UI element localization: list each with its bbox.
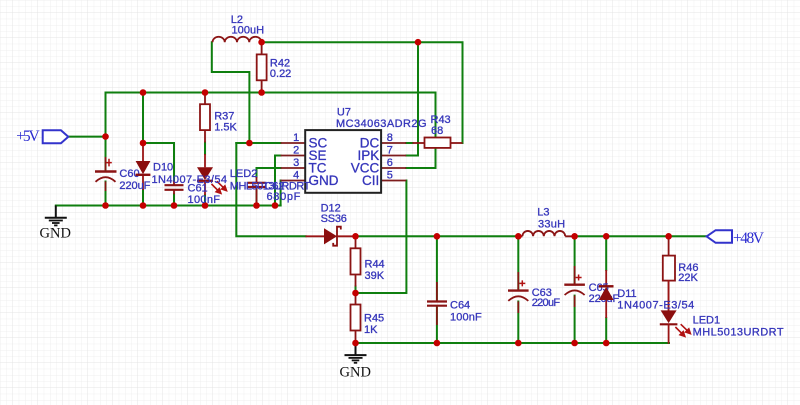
resistor R42 [257,42,267,92]
svg-text:100nF: 100nF [450,311,482,323]
svg-text:6: 6 [387,157,393,169]
svg-text:100nF: 100nF [188,194,221,206]
node rail C65 / L3 [571,233,578,240]
wire pin4 GND down [280,181,282,206]
svg-text:22K: 22K [678,272,698,284]
wire left ground bus [56,205,281,207]
svg-text:+5V: +5V [16,128,40,145]
svg-text:GND: GND [40,225,71,241]
capacitor C61 [165,181,184,195]
wire C64 top [436,236,438,300]
wire LED2 bottom [204,195,206,206]
wire C63 top [517,236,519,289]
node IPK riser top [415,39,422,46]
wire C61 jog [143,143,174,181]
node out gnd C64 [434,340,441,347]
svg-text:D11: D11 [617,288,636,300]
svg-text:0.22: 0.22 [270,68,291,80]
wire C65 top [574,236,576,283]
svg-text:1.5K: 1.5K [214,122,237,134]
resistor R46 [663,236,675,310]
capacitor C65 (polarized) [564,266,585,307]
wire C61 bottom [173,194,175,205]
node rail C64 [434,233,441,240]
svg-text:GND: GND [309,173,339,188]
svg-text:R44: R44 [365,259,385,271]
resistor R44 [351,236,361,286]
wire C62 bottom [256,187,258,206]
wire output rail L3 to +48V flag [575,235,707,237]
svg-text:33uH: 33uH [538,219,565,231]
wire D11 bottom [605,318,607,343]
svg-text:220uF: 220uF [532,297,561,309]
node gnd bus D10 [140,202,147,209]
inductor L2 [213,37,262,42]
wire R44 bottom to pin5 feedback [356,181,407,294]
node feedback R44/R45 [352,290,359,297]
svg-text:R45: R45 [364,313,384,325]
wire C63 bottom [517,302,519,344]
svg-text:1: 1 [293,132,299,144]
svg-text:1K: 1K [364,324,378,336]
capacitor C62 [248,177,266,206]
ground symbol right [345,343,367,363]
IC U7 MC34063ADR2G [281,130,407,193]
wire output rail D12 to L3 [356,235,519,237]
wire +5V bus to VCC [106,93,436,169]
resistor R45 [351,293,361,343]
svg-text:4: 4 [293,169,299,181]
wire top rail from L2 right to top-right corner [262,42,463,143]
diode D10 [136,143,151,190]
diode D11 body overdraw [599,286,614,300]
node gnd bus C66 [102,202,109,209]
wire IPK riser [406,42,418,155]
svg-text:C61: C61 [188,183,208,195]
wire pin2 SE to ground bus [275,156,281,206]
node SC / L2 [246,140,253,147]
LED LED1 [660,280,691,343]
resistor R43 [413,138,463,148]
capacitor C64 [427,282,447,325]
svg-text:1N4007-E3/54: 1N4007-E3/54 [617,300,694,312]
capacitor C66 (polarized) [95,157,117,191]
node D12 cathode [352,233,359,240]
node R37 top [202,89,209,96]
node L2 right [258,39,265,46]
node D10 top [140,89,147,96]
wire +5V flag stub [68,136,105,138]
diode D10 body overdraw [136,161,151,175]
wire pin3 TC to C62 [257,168,281,177]
wire SC pin 1 [236,142,280,144]
node gnd bus SE [272,202,279,209]
wire D11 top [605,236,607,270]
capacitor C63 (polarized) [508,272,529,313]
svg-text:8: 8 [387,132,393,144]
node out gnd C65 [571,340,578,347]
svg-text:CII: CII [362,173,379,188]
svg-text:MHL5013URDRT: MHL5013URDRT [693,327,784,339]
svg-text:LED2: LED2 [230,168,258,180]
node out gnd R45 [352,340,359,347]
node gnd bus C62 [253,202,260,209]
wire R44 lower link [355,286,357,293]
wire C66 column bottom [105,182,107,206]
svg-text:2: 2 [293,144,299,156]
inductor L3 [518,231,574,236]
wire output ground bus [356,342,670,344]
wire C66 column top [105,93,107,171]
svg-text:3: 3 [293,157,299,169]
node +5V flag [102,133,109,140]
node D10 / C61 [140,140,147,147]
node gnd bus LED2 [202,202,209,209]
+5V net flag [16,128,68,145]
wire SC down to D12 anode [236,143,305,236]
svg-text:GND: GND [340,365,371,381]
svg-text:5: 5 [387,169,393,181]
svg-text:68: 68 [431,125,443,137]
svg-text:MC34063ADR2G: MC34063ADR2G [336,118,427,130]
wire D10 bottom [142,190,144,206]
svg-text:L3: L3 [537,207,549,219]
+48V net flag [707,230,765,247]
wire R43 left link [406,142,412,144]
node gnd bus C61 [171,202,178,209]
svg-text:U7: U7 [337,106,351,118]
node R42 bottom [258,89,265,96]
svg-text:C64: C64 [450,300,470,312]
wire from L2 left terminal down and over to SC node [212,42,250,143]
svg-text:7: 7 [387,144,393,156]
wire D10 top [142,93,144,144]
svg-text:SS36: SS36 [321,213,347,225]
resistor R37 [200,93,210,143]
wire C65 bottom [574,296,576,343]
svg-text:220uF: 220uF [119,180,150,192]
diode D12 (schottky SS36) [306,227,356,246]
node rail C63 / L3 [515,233,522,240]
node out gnd D11 [603,340,610,347]
svg-text:LED1: LED1 [693,315,721,327]
wire R37-LED2 link [204,143,206,155]
node rail D11 [603,233,610,240]
svg-text:D10: D10 [153,162,173,174]
svg-text:39K: 39K [365,270,385,282]
LED LED2 [197,154,227,195]
diode D11 [599,270,614,318]
svg-text:680pF: 680pF [267,191,301,203]
svg-text:100uH: 100uH [232,24,265,36]
ground symbol left [45,206,67,226]
svg-text:+48V: +48V [733,230,765,247]
node rail R46 [665,233,672,240]
node out gnd C63 [515,340,522,347]
wire C64 bottom [436,307,438,343]
